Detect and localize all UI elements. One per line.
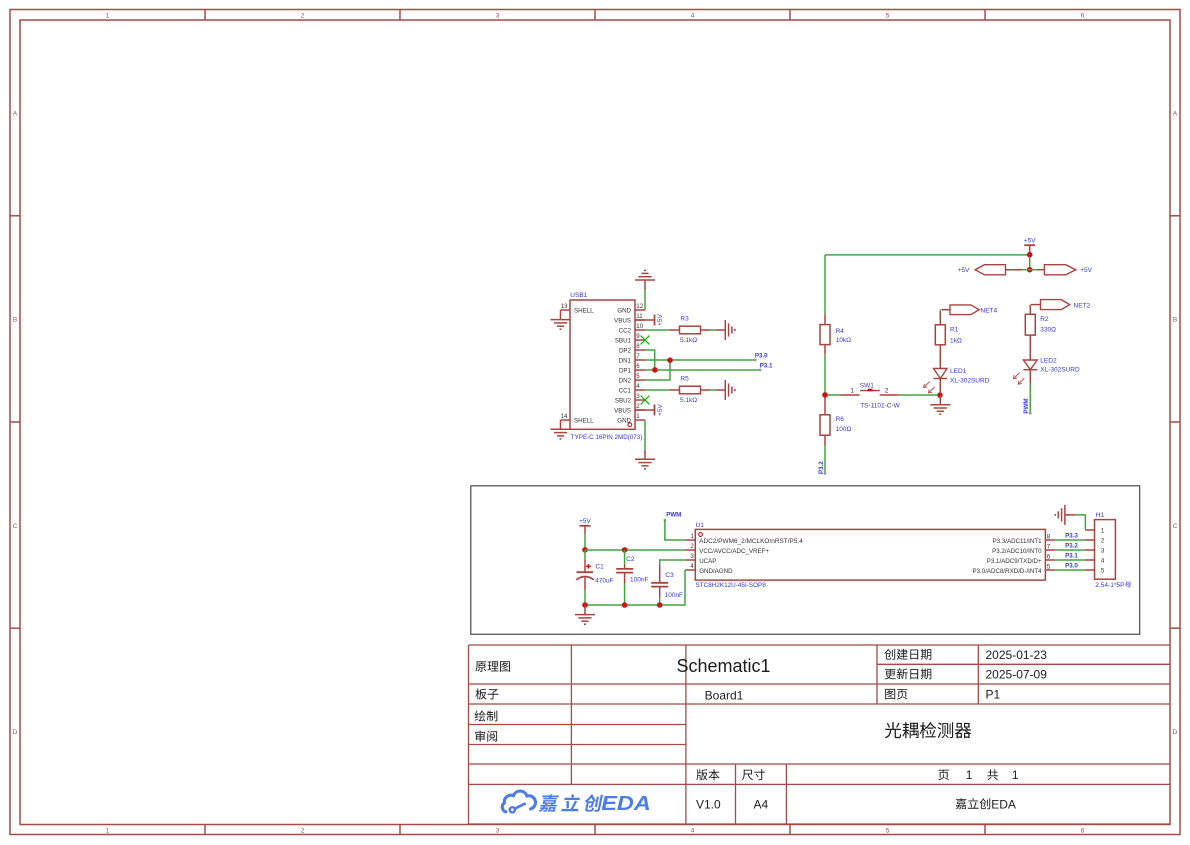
svg-text:14: 14: [561, 413, 568, 420]
svg-text:P3.1/ADC9/TXD/D+: P3.1/ADC9/TXD/D+: [987, 558, 1042, 565]
svg-text:1: 1: [1101, 528, 1105, 535]
svg-text:P3.2: P3.2: [1065, 543, 1078, 550]
svg-text:XL-302SURD: XL-302SURD: [1040, 367, 1080, 374]
svg-text:100nF: 100nF: [665, 592, 683, 599]
svg-text:P3.0: P3.0: [755, 353, 768, 360]
svg-text:6: 6: [1081, 827, 1085, 834]
wire DP2 jog down to DP1: [645, 350, 655, 370]
resistor R3: [670, 326, 710, 334]
svg-text:P1: P1: [986, 688, 1001, 702]
+5V power symbol in section: [580, 525, 591, 527]
svg-text:+5V: +5V: [1024, 238, 1036, 245]
svg-text:STC8H2K12U-45I-SOP8: STC8H2K12U-45I-SOP8: [696, 582, 767, 589]
svg-text:R4: R4: [836, 328, 845, 335]
R2 labels: [1040, 316, 1056, 333]
svg-text:R2: R2: [1040, 316, 1049, 323]
svg-text:P3.1: P3.1: [1065, 553, 1078, 560]
svg-text:2: 2: [301, 827, 305, 834]
svg-text:3: 3: [690, 553, 694, 560]
svg-text:USB1: USB1: [570, 292, 587, 299]
+5V tap at USB1 pin 2: [635, 409, 655, 411]
svg-text:6: 6: [1081, 12, 1085, 19]
svg-text:P3.1: P3.1: [760, 363, 773, 370]
wire CC1 to R5: [645, 389, 670, 391]
svg-text:4: 4: [636, 383, 640, 390]
svg-text:P3.3/ADC11/INT1: P3.3/ADC11/INT1: [993, 538, 1043, 545]
svg-text:ADC2/PWM6_2/MCLKO/nRST/P5.4: ADC2/PWM6_2/MCLKO/nRST/P5.4: [699, 538, 803, 545]
svg-text:7: 7: [1047, 543, 1051, 550]
svg-text:1: 1: [106, 827, 110, 834]
svg-text:SBU1: SBU1: [615, 337, 632, 344]
wire R3 to ground: [710, 329, 716, 331]
svg-text:4: 4: [690, 563, 694, 570]
USB1 pin 1 indicator circle: [628, 423, 632, 427]
C1 labels: [595, 563, 613, 584]
svg-text:C: C: [13, 523, 18, 530]
svg-text:1: 1: [851, 388, 855, 395]
wire +5V to rail: [584, 535, 586, 550]
svg-text:8: 8: [1047, 533, 1051, 540]
connector H1 outline: [1095, 520, 1116, 580]
IC U1 outline: [695, 529, 1045, 580]
svg-text:1: 1: [966, 768, 973, 782]
svg-text:B: B: [13, 317, 17, 324]
ground below USB1: [644, 450, 646, 460]
svg-text:SBU2: SBU2: [615, 397, 632, 404]
connector H1 pin 1 stub: [1085, 529, 1094, 531]
svg-text:EDA: EDA: [601, 792, 651, 815]
net label P3.1: [759, 363, 773, 372]
wire DP1 to P3.1: [645, 369, 760, 371]
LED2 labels: [1040, 358, 1080, 374]
wire pin1 GND down: [644, 420, 646, 450]
svg-text:3: 3: [1101, 548, 1105, 555]
svg-text:100nF: 100nF: [630, 577, 648, 584]
svg-text:C3: C3: [665, 572, 674, 579]
wire +5V rail to U1 pin2: [585, 549, 685, 551]
svg-text:2.54-1*5P: 2.54-1*5P: [1095, 582, 1125, 589]
title block texts latin: [676, 648, 1047, 812]
svg-text:2: 2: [301, 12, 305, 19]
LED1: [924, 345, 947, 393]
svg-text:1kΩ: 1kΩ: [950, 338, 962, 345]
USB1 pin 7 DN1 stub: [635, 359, 645, 361]
svg-text:1: 1: [1012, 768, 1019, 782]
ground below LED1: [939, 395, 941, 405]
svg-text:SHELL: SHELL: [574, 417, 594, 424]
svg-text:PWM: PWM: [1023, 398, 1030, 413]
ground at USB1 pin 14: [551, 429, 571, 439]
connector H1 pin 5 stub: [1085, 569, 1095, 571]
svg-text:LED1: LED1: [950, 368, 967, 375]
logo cloud icon: [502, 791, 535, 812]
title block grid: [469, 645, 1171, 824]
C3 labels: [665, 572, 683, 599]
svg-text:8: 8: [636, 343, 640, 350]
connector H1 pin 2 stub: [1085, 539, 1095, 541]
USB1 pin 5 DN2 stub: [635, 379, 645, 381]
USB1 pin 8 DP2 stub: [635, 349, 645, 351]
USB1 pin 14 SHELL stub: [561, 419, 571, 421]
net port +5V right: [1030, 265, 1093, 275]
svg-text:7: 7: [636, 353, 640, 360]
capacitor C3: [651, 565, 668, 605]
svg-text:P3.3: P3.3: [1065, 533, 1078, 540]
svg-text:R6: R6: [836, 416, 845, 423]
svg-text:A: A: [1173, 110, 1178, 117]
net port NET2: [1041, 300, 1091, 310]
svg-text:CC1: CC1: [619, 387, 632, 394]
svg-text:Schematic1: Schematic1: [676, 656, 770, 676]
svg-text:6: 6: [1047, 553, 1051, 560]
U1 pin 4 stub: [685, 569, 695, 571]
no-connect X at USB1 pin 3: [641, 396, 650, 405]
USB1 pin 13 SHELL stub: [561, 309, 571, 311]
svg-text:DN2: DN2: [619, 377, 632, 384]
wire H1 pin1 to ground: [1076, 515, 1086, 530]
svg-text:5: 5: [886, 827, 890, 834]
wire R4 to junction: [824, 355, 826, 395]
wire DN1 to P3.0: [645, 359, 755, 361]
svg-text:SHELL: SHELL: [574, 307, 594, 314]
junction C2 bottom: [622, 602, 628, 608]
svg-text:5.1kΩ: 5.1kΩ: [680, 337, 697, 344]
wire LED2 to PWM: [1029, 384, 1032, 415]
USB1 pin 4 CC1 stub: [635, 389, 645, 391]
svg-text:SW1: SW1: [860, 382, 874, 389]
svg-text:+5V: +5V: [579, 518, 591, 525]
R6 labels: [836, 416, 852, 433]
resistor R6: [820, 398, 830, 445]
USB1 pin 1 GND stub: [635, 419, 645, 421]
svg-text:+5V: +5V: [657, 403, 664, 415]
svg-text:B: B: [1173, 317, 1177, 324]
svg-text:R3: R3: [680, 315, 689, 322]
svg-text:10: 10: [636, 323, 643, 330]
junction C1 bottom: [582, 602, 588, 608]
svg-text:6: 6: [636, 363, 640, 370]
svg-text:1: 1: [690, 533, 694, 540]
LED1 labels: [950, 368, 990, 385]
svg-text:A4: A4: [754, 797, 769, 811]
USB1 pin 12 GND stub: [635, 309, 645, 311]
svg-text:H1: H1: [1096, 512, 1105, 519]
svg-text:NET2: NET2: [1074, 302, 1091, 309]
svg-text:P3.2: P3.2: [818, 461, 825, 474]
svg-text:1: 1: [106, 12, 110, 19]
wire U1 pin3 UCAP to C3: [660, 560, 686, 565]
svg-text:2: 2: [636, 403, 640, 410]
U1 pin 3 stub: [685, 559, 695, 561]
svg-text:5: 5: [886, 12, 890, 19]
resistor R2: [1025, 314, 1035, 335]
wire R6 to P3.2: [824, 445, 827, 475]
svg-text:GND/AGND: GND/AGND: [699, 568, 733, 575]
svg-text:330Ω: 330Ω: [1040, 326, 1056, 333]
R4 labels: [836, 328, 851, 344]
svg-text:5.1kΩ: 5.1kΩ: [680, 397, 697, 404]
title block chinese texts: [475, 582, 1131, 812]
U1 pin 6 stub: [1045, 559, 1055, 561]
U1 pin1 indicator circle: [699, 533, 703, 537]
svg-text:3: 3: [496, 827, 500, 834]
capacitor C2: [616, 547, 633, 605]
wire NET2 to R2: [1030, 305, 1040, 315]
svg-text:5: 5: [636, 373, 640, 380]
wire +5V rail down to R4: [824, 255, 826, 315]
wire pin12 GND up: [644, 290, 646, 311]
R5 labels: [680, 375, 697, 404]
svg-text:CC2: CC2: [619, 327, 632, 334]
svg-text:D: D: [1173, 729, 1178, 736]
wire CC2 to R3: [645, 329, 670, 331]
connector USB1 outline: [570, 300, 635, 429]
svg-text:12: 12: [636, 303, 643, 310]
connector H1 pin 4 stub: [1085, 559, 1095, 561]
resistor R1: [935, 325, 945, 345]
svg-text:V1.0: V1.0: [696, 797, 721, 811]
svg-text:VBUS: VBUS: [614, 317, 631, 324]
wire +5V down to ports: [1029, 255, 1031, 270]
svg-text:XL-302SURD: XL-302SURD: [950, 378, 990, 385]
svg-text:UCAP: UCAP: [699, 558, 716, 565]
svg-text:DP1: DP1: [619, 367, 632, 374]
net label PWM at U1: [664, 512, 682, 522]
SW1 labels: [860, 382, 901, 409]
section box around MCU circuit: [471, 486, 1140, 635]
USB1 pin 6 DP1 stub: [635, 369, 645, 371]
LED2: [1014, 335, 1038, 384]
svg-text:R5: R5: [680, 375, 689, 382]
svg-text:DP2: DP2: [619, 347, 632, 354]
svg-text:1: 1: [636, 413, 640, 420]
svg-text:9: 9: [636, 333, 640, 340]
U1 pin 2 stub: [685, 549, 695, 551]
ground at USB1 pin 13: [551, 320, 571, 330]
ground right of R5: [716, 389, 725, 391]
svg-text:+5V: +5V: [958, 267, 970, 274]
connector H1 pin 3 stub: [1085, 549, 1095, 551]
svg-text:U1: U1: [696, 522, 705, 529]
wire SW1 to LED1 cathode node: [899, 394, 937, 396]
switch SW1: [828, 388, 900, 395]
wire U1 to H1 P3.3: [1055, 539, 1085, 541]
junction on DP1: [652, 367, 658, 373]
svg-text:C1: C1: [595, 563, 604, 570]
svg-text:NET4: NET4: [981, 307, 998, 314]
svg-text:+5V: +5V: [1080, 267, 1092, 274]
capacitor C1 (polarized): [576, 550, 594, 605]
junction +5V rail: [1027, 252, 1033, 258]
junction at C1 top: [582, 547, 588, 553]
net port NET4: [950, 305, 998, 315]
net label P3.0: [754, 353, 768, 362]
svg-text:13: 13: [561, 303, 568, 310]
svg-text:D: D: [13, 729, 18, 736]
R3 labels: [680, 315, 697, 344]
svg-text:4: 4: [691, 12, 695, 19]
svg-text:TYPE-C 16PIN 2MD(073): TYPE-C 16PIN 2MD(073): [571, 434, 643, 441]
svg-text:P3.0/ADC8/RXD/D-/INT4: P3.0/ADC8/RXD/D-/INT4: [972, 568, 1042, 575]
svg-text:100Ω: 100Ω: [836, 426, 852, 433]
svg-text:2025-07-09: 2025-07-09: [986, 667, 1048, 681]
junction on DN1: [667, 357, 673, 363]
svg-text:10kΩ: 10kΩ: [836, 337, 851, 344]
U1 pin 1 stub: [685, 539, 695, 541]
svg-text:GND: GND: [617, 417, 631, 424]
svg-text:C2: C2: [626, 556, 635, 563]
svg-text:VCC/AVCC/ADC_VREF+: VCC/AVCC/ADC_VREF+: [699, 548, 769, 555]
C2 labels: [626, 556, 648, 584]
svg-text:3: 3: [496, 12, 500, 19]
wire R5 to ground: [710, 389, 716, 391]
svg-text:+5V: +5V: [657, 313, 664, 325]
svg-text:5: 5: [1047, 563, 1051, 570]
wire +5V rail horizontal: [825, 254, 1030, 256]
U1 pin 8 stub: [1045, 539, 1055, 541]
no-connect X at USB1 pin 9: [641, 336, 650, 345]
USB1 pin 10 CC2 stub: [635, 329, 645, 331]
svg-text:4: 4: [691, 827, 695, 834]
svg-text:P3.0: P3.0: [1065, 563, 1078, 570]
wire U1 to H1 P3.1: [1055, 559, 1085, 561]
svg-text:VBUS: VBUS: [614, 407, 631, 414]
USB1 pin 2 VBUS stub: [635, 409, 645, 411]
svg-text:LED2: LED2: [1040, 358, 1057, 365]
junction C3 bottom: [657, 602, 663, 608]
resistor R5: [670, 386, 710, 394]
svg-text:PWM: PWM: [666, 512, 681, 519]
+5V tap at USB1 pin 11: [635, 319, 655, 321]
ground above USB1 (inverted): [644, 280, 646, 290]
ground below C1: [584, 605, 586, 615]
svg-text:4: 4: [1101, 558, 1105, 565]
svg-text:GND: GND: [617, 307, 631, 314]
wire U1 to H1 P3.2: [1055, 549, 1085, 551]
+5V power symbol top: [1024, 244, 1035, 246]
wire ground rail bottom: [585, 570, 685, 605]
USB1 pin 9 SBU1 stub: [635, 339, 645, 341]
wire NET4 to R1: [940, 310, 950, 325]
svg-text:2: 2: [1101, 538, 1105, 545]
junction R4/SW1/R6: [822, 392, 828, 398]
net port +5V left: [958, 265, 1030, 275]
ground right of R3: [716, 329, 725, 331]
svg-text:EDA: EDA: [991, 797, 1016, 811]
svg-text:C: C: [1173, 523, 1178, 530]
R1 labels: [950, 327, 962, 345]
svg-text:2025-01-23: 2025-01-23: [986, 648, 1048, 662]
USB1 pin 3 SBU2 stub: [635, 399, 645, 401]
svg-text:A: A: [13, 110, 18, 117]
svg-text:R1: R1: [950, 327, 959, 334]
wire U1 to H1 P3.0: [1055, 569, 1085, 571]
svg-text:5: 5: [1101, 568, 1105, 575]
wire DN2 jog up to DN1: [645, 360, 670, 380]
svg-text:TS-1101-C-W: TS-1101-C-W: [860, 402, 900, 409]
USB1 pin 11 VBUS stub: [635, 319, 645, 321]
svg-text:DN1: DN1: [619, 357, 632, 364]
svg-text:P3.2/ADC10/INT0: P3.2/ADC10/INT0: [992, 548, 1042, 555]
svg-text:3: 3: [636, 393, 640, 400]
svg-text:11: 11: [636, 313, 643, 320]
wire PWM to U1 pin1: [665, 520, 686, 540]
svg-text:2: 2: [885, 388, 889, 395]
ground left of H1: [1065, 514, 1076, 516]
svg-text:470uF: 470uF: [595, 578, 613, 585]
U1 pin 5 stub: [1045, 569, 1055, 571]
junction LED1 cathode: [937, 392, 943, 398]
resistor R4: [820, 315, 830, 355]
svg-text:2: 2: [690, 543, 694, 550]
U1 pin 7 stub: [1045, 549, 1055, 551]
junction +5V ports: [1027, 267, 1033, 273]
svg-text:Board1: Board1: [705, 688, 744, 702]
